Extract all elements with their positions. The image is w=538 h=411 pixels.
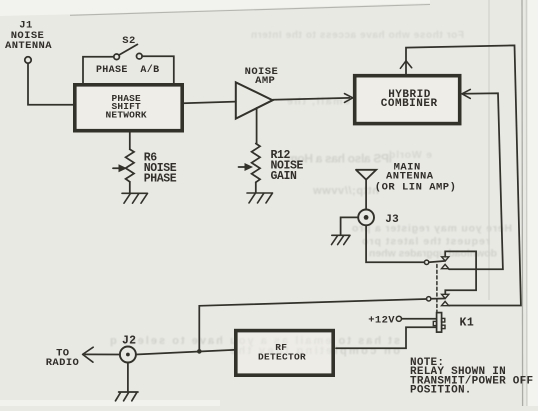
wire J3 to relay common (top): [366, 225, 424, 262]
svg-text:RADIO: RADIO: [46, 357, 80, 369]
wire R12 to ground: [255, 182, 257, 192]
wire J2 to ground: [127, 363, 129, 392]
svg-text:COMBINER: COMBINER: [381, 98, 438, 110]
ground at J3: [332, 235, 351, 244]
junction node: [197, 349, 202, 354]
relay K1 bottom contact set: [427, 294, 449, 305]
ground below J2: [116, 392, 139, 401]
note text: [410, 357, 533, 397]
wire noise amp to R12: [256, 108, 258, 144]
svg-text:J3: J3: [385, 214, 399, 226]
wire J2 to radio with arrow: [46, 347, 120, 369]
ground below R12: [247, 193, 273, 203]
op-amp NOISE AMP: [236, 66, 278, 118]
page-edge scan artifacts (decorative): [0, 0, 430, 16]
wire J2 to RF detector: [136, 350, 234, 355]
arrowhead up on combiner output: [400, 61, 411, 69]
svg-text:PHASE: PHASE: [144, 172, 177, 185]
svg-text:ANTENNA: ANTENNA: [5, 40, 52, 52]
wire J3 to ground: [341, 217, 359, 235]
svg-text:DETECTOR: DETECTOR: [258, 352, 306, 363]
svg-text:PHASE A/B: PHASE A/B: [96, 64, 160, 76]
svg-text:NETWORK: NETWORK: [106, 109, 147, 120]
wire hybrid combiner right input from relay: [449, 93, 503, 269]
wire coil to RF detector: [336, 327, 436, 348]
wire J1 to phase shift network: [28, 63, 73, 105]
relay mechanical link (dashed): [436, 265, 438, 312]
connector J3: [358, 210, 399, 226]
svg-text:K1: K1: [460, 317, 475, 330]
wire relay bottom common to junction: [199, 299, 426, 352]
relay coil K1: [433, 313, 474, 333]
antenna MAIN ANTENNA: [356, 161, 456, 209]
arrowhead into hybrid combiner right: [462, 89, 470, 98]
wire network to noise amp: [183, 102, 236, 104]
svg-text:J2: J2: [122, 334, 136, 347]
svg-text:GAIN: GAIN: [271, 170, 298, 183]
block RF DETECTOR: [236, 331, 333, 376]
svg-text:POSITION.: POSITION.: [410, 385, 472, 397]
switch S2: [96, 35, 160, 76]
svg-text:request the latest pro: request the latest pro: [362, 236, 490, 248]
arrowhead into hybrid combiner left: [345, 94, 353, 103]
potentiometer R12: [239, 144, 304, 184]
wire R6 to ground: [129, 182, 131, 193]
svg-text:nttp;//vvww: nttp;//vvww: [313, 185, 379, 197]
wire S2 left leg: [83, 57, 114, 84]
svg-text:AMP: AMP: [255, 75, 275, 87]
svg-text:+12V: +12V: [368, 315, 395, 327]
+12V terminal: [368, 315, 401, 327]
wire S2 right leg: [142, 56, 174, 83]
relay K1 top contact set: [424, 257, 448, 269]
wire network to R6: [129, 133, 131, 150]
potentiometer R6: [113, 149, 177, 185]
svg-text:download upgrades when: download upgrades when: [369, 248, 497, 260]
wire hybrid combiner output to relay (top): [406, 45, 521, 305]
wire noise amp to hybrid combiner: [273, 98, 350, 100]
svg-text:S2: S2: [122, 35, 135, 47]
wire +12V to coil: [402, 318, 437, 320]
svg-text:For those who have access to t: For those who have access to the Intern: [251, 30, 464, 41]
block HYBRID COMBINER: [355, 76, 460, 124]
connector J2: [120, 334, 137, 362]
wire NC top to NC bottom: [445, 251, 476, 294]
svg-text:e World: e World: [389, 149, 432, 161]
connector J1: [5, 19, 52, 63]
ground below R6: [122, 193, 148, 203]
svg-text:(OR LIN AMP): (OR LIN AMP): [375, 182, 457, 194]
block PHASE SHIFT NETWORK: [75, 85, 182, 131]
svg-text:ANTENNA: ANTENNA: [386, 170, 434, 182]
svg-text:Here you may register a pro: Here you may register a pro: [352, 223, 512, 235]
